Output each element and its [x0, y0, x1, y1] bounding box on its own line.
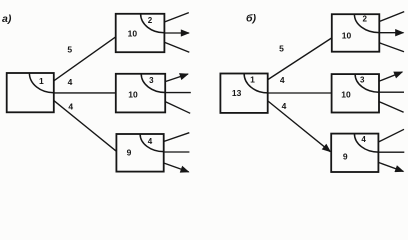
corner arc of bottom box (figure a) [140, 134, 164, 152]
node box 1 (figure a, event 1) [7, 73, 54, 112]
svg-text:3: 3 [360, 75, 365, 84]
svg-text:13: 13 [232, 88, 242, 98]
svg-text:2: 2 [148, 16, 153, 25]
svg-text:10: 10 [341, 89, 351, 99]
node box 10 middle (figure a, event 3) [116, 74, 165, 113]
output wire down from top box (figure b) [379, 43, 404, 52]
output arrow horizontal from top box (figure b) [379, 32, 403, 34]
output wire down from middle box (figure a) [165, 102, 190, 114]
arrow 1-4 duration 4 diagonal (figure b) [268, 101, 331, 152]
output wire horizontal from middle box (figure b) [379, 91, 404, 93]
svg-text:3: 3 [149, 76, 154, 85]
wire 1-3 duration 4 horizontal (figure a) [54, 92, 116, 94]
svg-text:4: 4 [68, 77, 73, 87]
corner arc of box 1 [29, 73, 53, 93]
output arrow up from middle box (figure a) [165, 74, 188, 82]
svg-text:5: 5 [279, 43, 284, 53]
node box 13 (figure b, event 1) [220, 74, 267, 113]
node box 10 top (figure b, event 2) [332, 14, 380, 52]
wire 1-2 duration 5 (figure a) [54, 37, 116, 81]
corner arc of bottom box (figure b) [354, 134, 378, 153]
svg-text:4: 4 [280, 75, 285, 85]
output wire up from top box (figure b) [379, 12, 404, 22]
output wire down from middle box (figure b) [379, 102, 404, 113]
corner arc of middle box (figure b) [355, 74, 379, 92]
node box 9 (figure b, event 4) [331, 134, 378, 172]
output arrow down from bottom box (figure b) [378, 162, 403, 171]
output arrow down from bottom box (figure a) [164, 163, 189, 172]
svg-text:9: 9 [343, 151, 348, 161]
corner arc of middle box (figure a) [141, 74, 165, 93]
node box 9 (figure a, event 4) [116, 134, 163, 172]
corner arc of top box (figure b) [354, 14, 379, 32]
svg-text:4: 4 [361, 135, 366, 144]
svg-text:4: 4 [68, 101, 73, 111]
svg-text:1: 1 [39, 76, 44, 86]
svg-text:10: 10 [128, 90, 138, 100]
node box 10 top (figure a, event 2) [116, 14, 165, 52]
output wire horizontal from bottom box (figure b) [378, 151, 404, 153]
svg-text:2: 2 [362, 15, 367, 24]
corner arc of top box (figure a) [141, 14, 165, 33]
svg-text:10: 10 [128, 28, 138, 38]
output wire up from top box (figure a) [164, 13, 188, 22]
wire 1-4 duration 4 diagonal (figure a) [54, 101, 116, 152]
svg-text:5: 5 [67, 44, 72, 54]
svg-text:б): б) [246, 13, 257, 25]
output wire down from top box (figure a) [164, 42, 189, 52]
svg-text:10: 10 [342, 31, 352, 41]
svg-text:9: 9 [127, 147, 132, 157]
wire 1-2 duration 5 (figure b) [268, 38, 332, 80]
wire 1-3 duration 4 horizontal (figure b) [268, 92, 332, 94]
svg-text:4: 4 [282, 101, 287, 111]
output arrow horizontal from top box (figure a) [164, 32, 189, 34]
output wire horizontal from middle box (figure a) [165, 92, 191, 94]
svg-text:1: 1 [250, 74, 255, 84]
output arrow up from middle box (figure b) [379, 72, 402, 81]
node box 10 middle (figure b, event 3) [332, 74, 379, 112]
output wire horizontal from bottom box (figure a) [164, 151, 190, 153]
svg-text:4: 4 [148, 137, 153, 146]
corner arc of box 13 [244, 74, 268, 93]
svg-text:а): а) [2, 13, 12, 25]
output wire up from bottom box (figure a) [164, 133, 190, 142]
output wire up from bottom box (figure b) [378, 129, 404, 142]
